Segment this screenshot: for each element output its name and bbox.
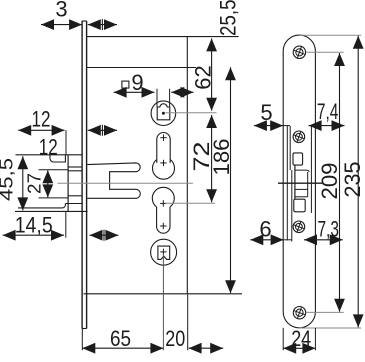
svg-text:12: 12 bbox=[39, 135, 58, 160]
svg-text:7,4: 7,4 bbox=[317, 99, 339, 124]
svg-text:14,5: 14,5 bbox=[15, 213, 53, 238]
svg-text:209: 209 bbox=[317, 163, 342, 200]
svg-text:27: 27 bbox=[25, 173, 45, 194]
svg-text:12: 12 bbox=[32, 107, 51, 132]
svg-text:62: 62 bbox=[190, 65, 215, 89]
svg-text:235: 235 bbox=[340, 162, 365, 198]
svg-text:24: 24 bbox=[291, 326, 311, 351]
svg-text:25,5: 25,5 bbox=[215, 0, 240, 36]
svg-text:186: 186 bbox=[209, 139, 234, 176]
svg-text:20: 20 bbox=[165, 326, 185, 351]
svg-text:45,5: 45,5 bbox=[0, 158, 17, 201]
svg-text:65: 65 bbox=[110, 326, 131, 351]
svg-text:3: 3 bbox=[55, 0, 67, 22]
